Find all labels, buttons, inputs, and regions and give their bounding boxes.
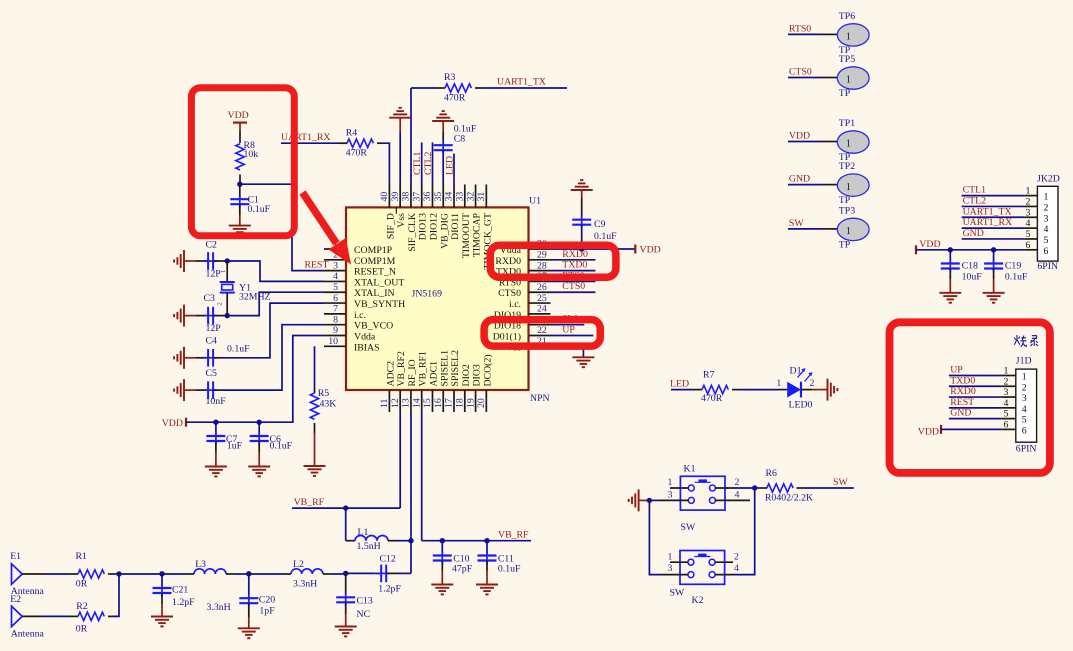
svg-text:COMP1M: COMP1M — [354, 256, 396, 267]
svg-text:i.c.: i.c. — [354, 310, 366, 321]
U1 pin 28 TXD0 — [496, 260, 551, 277]
ground left of K1 — [638, 489, 640, 511]
svg-text:RESET_N: RESET_N — [354, 267, 396, 278]
node C6 junction — [257, 420, 262, 425]
svg-text:28: 28 — [537, 260, 547, 271]
U1 pin 30 Vdda — [500, 239, 551, 256]
U1 pin 37 DIO13 — [411, 185, 428, 241]
svg-text:C4: C4 — [206, 336, 218, 347]
wire E2 to R2 — [22, 615, 45, 617]
U1 pin 6 VB_SYNTH — [324, 293, 405, 310]
svg-text:3: 3 — [333, 260, 338, 271]
svg-text:2: 2 — [735, 477, 740, 488]
wire C5 to VB_VCO pin8 — [222, 325, 324, 390]
svg-text:1: 1 — [846, 32, 851, 43]
connector JK2D 6PIN — [1024, 174, 1059, 272]
U1 pin 33 TIMOOUT — [454, 185, 471, 259]
wire junction to RESET_N — [240, 184, 324, 270]
svg-text:10: 10 — [328, 336, 338, 347]
U1 pin39 Vss overline — [395, 207, 397, 214]
svg-text:R2: R2 — [76, 601, 88, 612]
svg-text:CTL2: CTL2 — [963, 195, 987, 206]
svg-text:4: 4 — [734, 563, 739, 574]
wire C4 to VB_SYNTH pin6 — [222, 303, 324, 358]
svg-text:SW: SW — [833, 477, 848, 488]
svg-text:6: 6 — [1022, 426, 1027, 437]
U1 pin 20 DCO(2) — [476, 354, 493, 412]
svg-text:32: 32 — [465, 192, 476, 202]
svg-text:SW: SW — [789, 218, 804, 229]
U1 pin 23 DIO18 — [494, 314, 551, 331]
U1 pin 27 RTS0 — [499, 271, 551, 288]
U1 pin 1 COMP1P — [324, 239, 393, 256]
svg-text:R3: R3 — [444, 72, 456, 83]
svg-text:REST: REST — [305, 260, 329, 271]
svg-text:C5: C5 — [206, 368, 218, 379]
U1 pin 3 RESET_N — [324, 260, 396, 277]
capacitor C6 0.1uF — [250, 422, 293, 466]
wire K1 junction down to K2 pin4 — [733, 488, 755, 575]
svg-text:5: 5 — [1026, 229, 1031, 240]
node K1 pin2 junction — [752, 485, 757, 490]
wire R1 to node — [112, 573, 119, 575]
node C18 junction — [948, 247, 953, 252]
svg-text:16: 16 — [433, 398, 444, 408]
svg-text:43K: 43K — [320, 399, 337, 410]
svg-text:TP5: TP5 — [839, 54, 855, 65]
svg-text:DIO12: DIO12 — [428, 213, 439, 240]
svg-text:20: 20 — [476, 398, 487, 408]
ground under C19 — [983, 292, 1005, 294]
U1 pin 31 TIMOCK_GT — [476, 185, 493, 270]
node K1 ground junction — [647, 498, 652, 503]
node R8/C1 junction — [237, 182, 242, 187]
svg-text:TP1: TP1 — [839, 118, 855, 129]
power port VDD at J1D — [918, 425, 1001, 438]
wire ground to K1 pin3 — [639, 499, 646, 501]
svg-text:1uF: 1uF — [227, 441, 243, 452]
svg-text:CTS0: CTS0 — [498, 288, 521, 299]
ground under C7 — [205, 466, 227, 468]
svg-text:VB_RF: VB_RF — [294, 497, 325, 508]
svg-text:17: 17 — [444, 398, 455, 408]
svg-text:VDD: VDD — [789, 130, 810, 141]
node LED net label — [670, 379, 694, 390]
svg-text:K1: K1 — [684, 464, 696, 475]
svg-text:4: 4 — [1044, 224, 1049, 235]
node GND net label at JK2D pin 5 — [962, 228, 1025, 239]
svg-text:4: 4 — [1022, 404, 1027, 415]
capacitor C5 10nF — [174, 368, 226, 407]
node CTL2 net label at JK2D pin 2 — [962, 195, 1025, 206]
svg-text:DIO2: DIO2 — [461, 364, 472, 386]
node C2/Y1 junction — [225, 258, 230, 263]
svg-text:470R: 470R — [346, 147, 368, 158]
svg-text:1: 1 — [846, 226, 851, 237]
test point TP3 (SW) — [788, 205, 869, 250]
svg-text:VDD: VDD — [162, 418, 183, 429]
svg-text:VB_RF2: VB_RF2 — [396, 351, 407, 386]
svg-text:VDD: VDD — [640, 245, 661, 256]
node C9 junction — [579, 246, 584, 251]
wire pin14 down — [421, 412, 423, 541]
svg-text:5: 5 — [1022, 415, 1027, 426]
svg-text:VB_DIG: VB_DIG — [439, 213, 450, 249]
resistor R7 470R — [694, 369, 740, 403]
svg-text:R5: R5 — [318, 388, 330, 399]
svg-text:DIO13: DIO13 — [418, 213, 429, 240]
power port VDD rail — [162, 418, 186, 429]
node C20 junction — [246, 571, 251, 576]
svg-text:LED0: LED0 — [789, 400, 813, 411]
svg-text:TP3: TP3 — [839, 205, 855, 216]
wire C2 node to XTAL_OUT pin4 — [227, 261, 324, 281]
node C7 junction — [213, 420, 218, 425]
svg-text:32MHZ: 32MHZ — [239, 292, 271, 303]
svg-text:5: 5 — [1004, 409, 1009, 420]
svg-text:19: 19 — [465, 398, 476, 408]
svg-text:C21: C21 — [172, 585, 188, 596]
node CTL1 label on pin37 — [412, 142, 423, 184]
svg-text:E2: E2 — [10, 594, 21, 605]
red annotation box 3 — [484, 320, 600, 347]
svg-text:470R: 470R — [701, 393, 723, 404]
wire R4 to pin40 — [382, 143, 389, 184]
red annotation box 1 — [191, 88, 294, 236]
svg-text:LED: LED — [670, 379, 689, 390]
svg-text:REST: REST — [950, 397, 974, 408]
capacitor C11 0.1uF — [478, 541, 522, 585]
U1 pin 18 DIO2 — [454, 364, 471, 412]
svg-text:13: 13 — [401, 398, 412, 408]
svg-text:47pF: 47pF — [452, 563, 473, 574]
U1 pin 39 Vss — [390, 185, 407, 228]
wire Vdda pin30 to VDD — [551, 248, 636, 250]
node C3/Y1 junction — [225, 313, 230, 318]
node R1/R2 junction — [116, 571, 121, 576]
svg-text:TP2: TP2 — [839, 161, 855, 172]
svg-text:UART1_TX: UART1_TX — [497, 77, 546, 88]
U1 pin 10 IBIAS — [324, 336, 380, 353]
svg-text:TP6: TP6 — [839, 11, 855, 22]
ground under C18 — [939, 292, 961, 294]
svg-text:36: 36 — [422, 192, 433, 202]
svg-text:3: 3 — [668, 489, 673, 500]
wire L2 to C13 node — [331, 573, 346, 575]
svg-text:24: 24 — [537, 304, 547, 315]
test point TP1 (VDD) — [788, 118, 869, 163]
ground under C20 — [238, 627, 260, 629]
svg-text:C12: C12 — [380, 553, 396, 564]
svg-text:SIF_D: SIF_D — [385, 213, 396, 239]
inductor L3 3.3nH — [194, 559, 234, 613]
svg-text:R7: R7 — [703, 369, 715, 380]
capacitor C9 0.1uF — [571, 180, 617, 249]
svg-text:3: 3 — [1022, 393, 1027, 404]
svg-text:14: 14 — [411, 398, 422, 408]
svg-text:UART1_RX: UART1_RX — [281, 132, 331, 143]
svg-text:8: 8 — [333, 314, 338, 325]
node CTL1 net label at JK2D pin 1 — [962, 185, 1025, 196]
node REST net label at J1D pin 4 — [949, 397, 1001, 408]
svg-text:0R: 0R — [76, 578, 88, 589]
power port VDD at pin30 — [635, 245, 660, 256]
ground under C21 — [151, 616, 173, 618]
svg-text:VDD: VDD — [918, 427, 939, 438]
resistor R8 10k — [236, 131, 258, 184]
svg-text:0.1uF: 0.1uF — [270, 441, 293, 452]
wire pin38 to R3 — [410, 88, 412, 185]
svg-text:i.c.: i.c. — [509, 299, 521, 310]
antenna E2 — [10, 594, 44, 640]
wire pin12 to VB_RF — [399, 412, 401, 508]
svg-text:6: 6 — [1026, 240, 1031, 251]
svg-text:4: 4 — [1004, 398, 1009, 409]
node LED label on pin34 — [445, 154, 456, 185]
wire C3 node to XTAL_IN pin5 — [227, 292, 324, 315]
node C19 junction — [991, 247, 996, 252]
svg-text:UP: UP — [562, 324, 575, 335]
ground under C10 — [431, 584, 453, 586]
wire C20 node to L2 — [249, 573, 283, 575]
svg-text:6: 6 — [333, 293, 338, 304]
svg-text:C13: C13 — [357, 596, 373, 607]
svg-text:TIMOOUT: TIMOOUT — [461, 213, 472, 258]
resistor R3 470R — [411, 72, 483, 103]
svg-text:18: 18 — [454, 398, 465, 408]
svg-text:10uF: 10uF — [962, 272, 983, 283]
node SW net label right — [804, 477, 854, 488]
U1 pin 25 i.c. — [509, 293, 550, 310]
power port VDD at JK2D — [916, 239, 1024, 255]
capacitor C13 NC — [336, 573, 373, 626]
resistor R2 0R — [76, 601, 112, 635]
svg-text:22: 22 — [537, 325, 547, 336]
U1 pin 34 DIO11 — [444, 185, 461, 240]
svg-text:CTL2: CTL2 — [423, 151, 434, 175]
svg-text:XTAL_IN: XTAL_IN — [354, 288, 395, 299]
test point TP5 (CTS0) — [788, 54, 869, 99]
node RXD0 net label at J1D pin 3 — [949, 386, 1001, 397]
svg-text:L2: L2 — [293, 559, 304, 570]
node CTL2 label on pin36 — [423, 142, 434, 184]
wire pin14 to VB_RF right — [422, 540, 531, 542]
U1 pin 12 VB_RF2 — [390, 351, 407, 412]
svg-text:34: 34 — [444, 192, 455, 202]
wire R7 to D1 — [740, 389, 779, 391]
svg-text:COMP1P: COMP1P — [354, 245, 393, 256]
svg-text:DIO11: DIO11 — [450, 213, 461, 240]
svg-text:12: 12 — [390, 398, 401, 408]
svg-text:CTL1: CTL1 — [412, 151, 423, 175]
capacitor C2 12P — [174, 240, 227, 280]
svg-text:2: 2 — [734, 552, 739, 563]
U1 pin 2 COMP1M — [324, 250, 396, 267]
node TXD0 net label at J1D pin 2 — [949, 375, 1001, 386]
wire K1 pin2 to R6 — [733, 487, 755, 489]
svg-text:470R: 470R — [444, 92, 466, 103]
svg-text:CTL1: CTL1 — [963, 185, 987, 196]
node VB_RF junction — [343, 505, 348, 510]
svg-text:NC: NC — [357, 609, 371, 620]
svg-text:SPISEL1: SPISEL1 — [439, 350, 450, 387]
U1 pin 19 DIO3 — [465, 364, 482, 412]
svg-text:Vdda: Vdda — [354, 331, 376, 342]
svg-text:RF_IO: RF_IO — [407, 359, 418, 386]
svg-text:GND: GND — [789, 174, 810, 185]
svg-text:1: 1 — [846, 75, 851, 86]
node GND net label at J1D pin 5 — [949, 408, 1001, 419]
U1 pin 16 SPISEL1 — [433, 350, 450, 412]
U1 pin 32 TIMOCAP — [465, 185, 482, 258]
svg-text:UP: UP — [950, 365, 963, 376]
U1 pin 40 SIF_D — [379, 185, 396, 240]
resistor R5 43K — [310, 346, 336, 466]
svg-text:4: 4 — [333, 271, 338, 282]
node VB_RF net label left — [292, 497, 400, 508]
node TXD0 net label — [551, 260, 596, 271]
U1 pin 17 SPISEL2 — [444, 350, 461, 412]
node UART1_RX net label at JK2D pin 4 — [962, 217, 1025, 228]
wire pin13 down to C12 — [410, 412, 412, 573]
svg-text:31: 31 — [476, 192, 487, 202]
red arrow annotation — [303, 193, 352, 265]
svg-text:UART1_RX: UART1_RX — [963, 217, 1013, 228]
crystal Y1 32MHZ — [217, 261, 271, 316]
svg-text:CTS0: CTS0 — [562, 281, 585, 292]
resistor R4 470R — [339, 127, 382, 158]
capacitor C8 0.1uF on pin35 — [432, 111, 477, 184]
svg-text:L3: L3 — [195, 559, 206, 570]
svg-text:7: 7 — [333, 304, 338, 315]
svg-text:3: 3 — [1044, 213, 1049, 224]
U1 pin 36 DIO12 — [422, 185, 439, 241]
U1 pin 11 ADC2 — [379, 361, 396, 412]
svg-text:1: 1 — [1026, 186, 1031, 197]
node UP net label at J1D pin 1 — [949, 365, 1001, 376]
power port VDD top-left — [228, 110, 249, 131]
svg-text:DCO(2): DCO(2) — [482, 354, 493, 386]
svg-text:9: 9 — [333, 325, 338, 336]
wire VDD rail to Vdda pin9 — [186, 336, 324, 423]
wire L3 to C20 node — [234, 573, 249, 575]
node UART1_TX net label at JK2D pin 3 — [962, 206, 1025, 217]
svg-text:3: 3 — [1026, 207, 1031, 218]
U1 pin 38 SIF_CLK — [401, 185, 418, 252]
svg-text:2: 2 — [1004, 376, 1009, 387]
wire K1 gnd junction down to K2 pin3 — [649, 500, 661, 574]
svg-text:4: 4 — [735, 489, 740, 500]
node RXD0 net label — [551, 249, 596, 260]
svg-text:1: 1 — [220, 270, 227, 273]
svg-text:C8: C8 — [454, 134, 466, 145]
resistor R6 R0402/2.2K — [755, 468, 813, 504]
ground under R5 — [304, 465, 326, 467]
svg-text:0.1uF: 0.1uF — [227, 344, 250, 355]
U1 pin 35 VB_DIG — [433, 185, 450, 249]
U1 pin 13 RF_IO — [401, 359, 418, 412]
U1 pin 15 ADC1 — [422, 361, 439, 412]
svg-text:1pF: 1pF — [259, 605, 275, 616]
svg-text:R1: R1 — [76, 551, 88, 562]
inductor L1 1.5nH — [346, 527, 411, 552]
U1 pin 22 D01(1) — [493, 325, 551, 342]
svg-text:38: 38 — [401, 192, 412, 202]
wire node to C21 — [119, 573, 162, 575]
svg-text:5: 5 — [333, 282, 338, 293]
U1 pin 8 VB_VCO — [324, 314, 393, 331]
svg-text:C3: C3 — [204, 293, 216, 304]
svg-text:3: 3 — [1004, 387, 1009, 398]
svg-text:JK2D: JK2D — [1037, 174, 1060, 185]
U1 pin 9 Vdda — [324, 325, 376, 342]
test point TP2 (GND) — [788, 161, 869, 206]
svg-text:3.3nH: 3.3nH — [293, 579, 317, 590]
svg-text:2: 2 — [1022, 382, 1027, 393]
svg-text:C18: C18 — [962, 261, 978, 272]
svg-text:6PIN: 6PIN — [1037, 261, 1058, 272]
svg-text:SPISEL2: SPISEL2 — [450, 350, 461, 387]
capacitor C21 1.2pF — [153, 574, 196, 617]
ground right of D1 — [827, 379, 829, 401]
svg-text:U1: U1 — [529, 196, 541, 207]
ground under C11 — [476, 584, 498, 586]
node UART1_TX net label — [483, 77, 567, 89]
svg-text:TP: TP — [839, 240, 851, 251]
capacitor C10 47pF — [433, 541, 473, 585]
svg-text:VB_VCO: VB_VCO — [354, 321, 393, 332]
svg-text:C19: C19 — [1005, 261, 1021, 272]
svg-text:11: 11 — [379, 398, 390, 408]
svg-text:29: 29 — [537, 250, 547, 261]
svg-text:XTAL_OUT: XTAL_OUT — [354, 277, 404, 288]
svg-text:L1: L1 — [358, 527, 369, 538]
IC U1 JN5169 body — [346, 196, 550, 404]
capacitor C1 0.1uF — [230, 184, 270, 225]
svg-text:Antenna: Antenna — [11, 629, 45, 640]
red annotation box 4 — [890, 322, 1050, 473]
svg-text:JN5169: JN5169 — [412, 289, 443, 300]
svg-text:40: 40 — [379, 192, 390, 202]
svg-text:DIO3: DIO3 — [472, 364, 483, 386]
svg-text:VB_SYNTH: VB_SYNTH — [354, 299, 405, 310]
svg-text:C20: C20 — [259, 595, 275, 606]
wire VB_RF node down to L1 — [345, 508, 347, 541]
capacitor C12 1.2pF — [346, 553, 411, 594]
svg-text:1: 1 — [1044, 192, 1049, 203]
svg-text:GND: GND — [963, 228, 984, 239]
svg-text:1: 1 — [668, 552, 673, 563]
switch K1 — [661, 464, 750, 533]
svg-text:TIMOCAP: TIMOCAP — [472, 212, 483, 257]
svg-text:RTS0: RTS0 — [789, 23, 811, 34]
capacitor C19 0.1uF — [984, 250, 1028, 293]
node L2/C13/C12 junction — [343, 571, 348, 576]
svg-text:TXD0: TXD0 — [950, 375, 975, 386]
svg-text:33: 33 — [454, 192, 465, 202]
capacitor C4 0.1uF — [174, 336, 250, 369]
svg-text:RXD0: RXD0 — [950, 386, 976, 397]
svg-text:2: 2 — [1044, 203, 1049, 214]
svg-text:1.5nH: 1.5nH — [357, 541, 381, 552]
svg-text:ADC2: ADC2 — [385, 361, 396, 387]
svg-text:C2: C2 — [206, 240, 218, 251]
switch K2 — [661, 551, 739, 607]
ground under C6 — [248, 466, 270, 468]
resistor R1 0R — [76, 551, 113, 589]
wire C21 to L3 — [162, 573, 186, 575]
red annotation box 2 — [490, 245, 616, 277]
